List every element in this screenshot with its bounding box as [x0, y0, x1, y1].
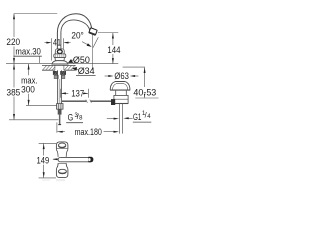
svg-text:4: 4 [147, 114, 151, 120]
svg-text:40-53: 40-53 [133, 87, 156, 97]
G3/8 male thread [58, 109, 62, 125]
dimension 149 [37, 143, 57, 178]
dimension max.180 [57, 122, 119, 137]
deck ref line right [68, 63, 118, 65]
svg-text:149: 149 [37, 156, 50, 166]
mounting nut dark [53, 71, 66, 75]
svg-text:Ø34: Ø34 [78, 66, 95, 76]
handle skirt [54, 54, 66, 58]
waste plug dome [110, 82, 130, 91]
faucet base flange [52, 61, 68, 64]
svg-text:Ø63: Ø63 [114, 71, 128, 81]
waste neck [116, 91, 127, 96]
dimension 385 vertical line [13, 64, 15, 120]
svg-text:8: 8 [79, 115, 83, 121]
svg-text:20°: 20° [71, 30, 84, 40]
svg-text:Ø50: Ø50 [73, 55, 90, 65]
label dia34 with leader [72, 66, 96, 76]
label G1 1/4 with leader [123, 111, 151, 123]
spout arc inner [61, 20, 90, 49]
dimension 137 [60, 88, 88, 98]
top view: upper handle lobe [56, 142, 68, 157]
svg-text:max.180: max.180 [75, 127, 102, 137]
handle cap [55, 49, 64, 55]
svg-text:220: 220 [6, 37, 20, 47]
ref line shank bottom [9, 119, 59, 121]
svg-text:137: 137 [71, 88, 84, 98]
label dia50 with leader [68, 55, 90, 65]
waste deck ref line [123, 66, 145, 68]
aerator [89, 28, 98, 36]
pop-up rod [62, 100, 111, 103]
dimension 144 [98, 33, 121, 64]
spout arc outer [57, 14, 91, 49]
deck section [42, 65, 76, 70]
dimension 40-53 [133, 68, 158, 99]
threaded shank [57, 70, 61, 103]
pipe dia arrows left [107, 118, 119, 120]
lower nut blocks [54, 75, 65, 78]
stub arrow at spout cap [52, 158, 57, 160]
svg-text:385: 385 [7, 88, 21, 98]
rod coupling [111, 99, 115, 105]
svg-text:G: G [68, 113, 74, 123]
svg-text:G1: G1 [133, 112, 141, 122]
deck reference line left [6, 63, 52, 65]
svg-text:144: 144 [107, 45, 120, 55]
dimension 220 vertical line [13, 14, 15, 64]
top view: lower handle lobe [56, 163, 68, 177]
dimension 41 [45, 38, 71, 61]
waste body [114, 95, 128, 103]
label max. 300 [21, 76, 37, 95]
label max.30 with underline and tick [14, 47, 42, 63]
ref line max300 bottom [26, 105, 57, 107]
faucet body [55, 58, 64, 61]
shank hex adapter [57, 104, 63, 110]
dimension dia63 [105, 71, 139, 81]
svg-text:max.30: max.30 [15, 47, 41, 57]
label G 3/8 [66, 112, 83, 123]
svg-text:300: 300 [21, 85, 35, 95]
ref line spout top [14, 13, 58, 15]
dimension max.300 vertical line [28, 64, 30, 105]
faint ghost marks [42, 179, 65, 181]
angle 20 deg reference lines [82, 35, 98, 71]
waste tailpipe [120, 104, 123, 134]
top view: spout tube [58, 157, 93, 163]
